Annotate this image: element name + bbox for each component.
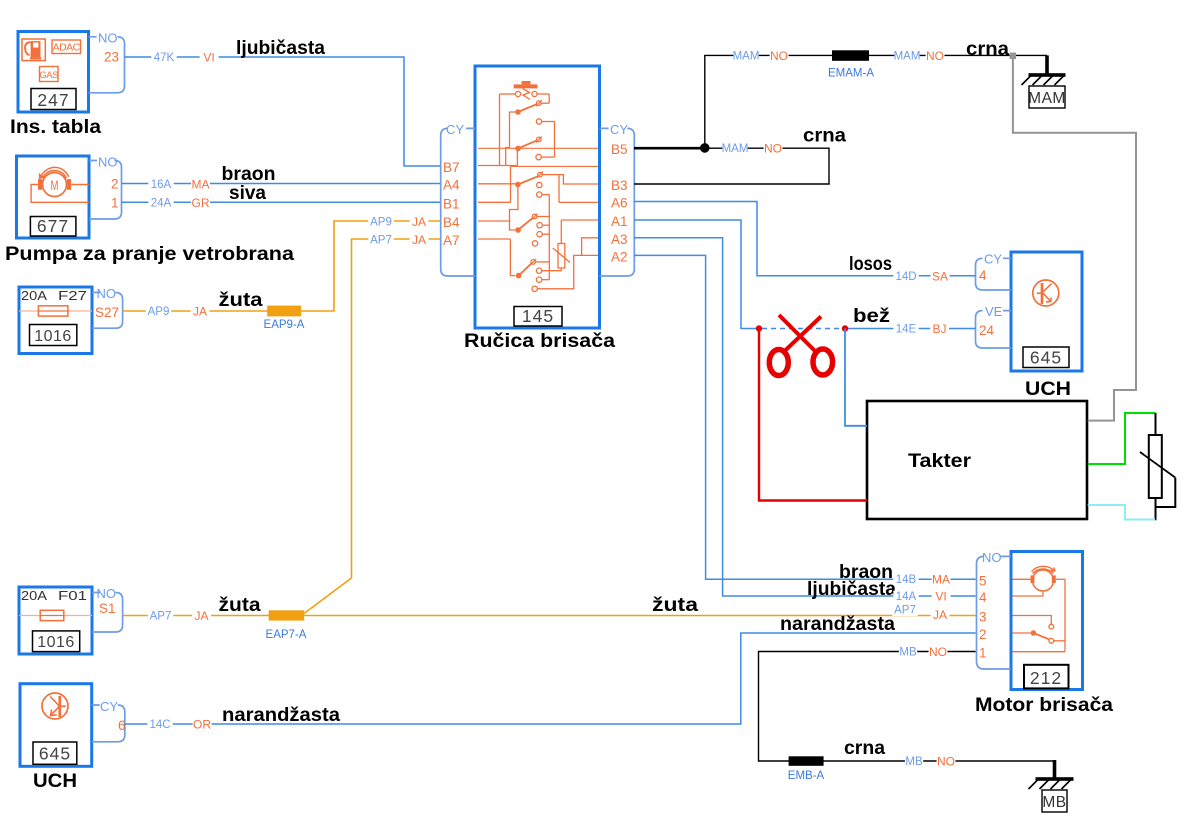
1016 code box F01 xyxy=(33,631,80,652)
node cut right xyxy=(842,325,848,331)
wire crna 212-1 to ground MB xyxy=(759,652,1055,762)
svg-text:EMB-A: EMB-A xyxy=(788,770,825,782)
svg-text:NO: NO xyxy=(926,49,944,63)
component 645 UCH box (bottom left) xyxy=(20,684,92,767)
wire label JA at 212-3 xyxy=(931,609,950,621)
svg-text:CY: CY xyxy=(100,699,118,714)
wire label MB 2 xyxy=(905,756,923,768)
svg-text:JA: JA xyxy=(194,609,208,623)
fuse F27 symbol xyxy=(19,310,92,312)
svg-text:VI: VI xyxy=(935,590,946,604)
svg-text:B5: B5 xyxy=(611,142,628,157)
switch icon 212 xyxy=(1013,616,1052,625)
212 code box xyxy=(1024,665,1069,689)
connector bracket 247 xyxy=(89,37,125,93)
svg-text:bež: bež xyxy=(853,305,890,327)
connector bracket 677 xyxy=(89,161,122,220)
splice EMAM-A xyxy=(832,50,869,61)
wire label JA (top) xyxy=(191,306,210,318)
svg-text:A7: A7 xyxy=(443,233,460,248)
wire siva 677-1 to 145-B1 xyxy=(122,201,441,203)
resistor R inside 145 xyxy=(560,220,562,244)
wire B5 row through 145 xyxy=(478,147,598,149)
svg-text:ljubičasta: ljubičasta xyxy=(236,37,325,59)
svg-text:B1: B1 xyxy=(443,196,460,211)
svg-text:MAM: MAM xyxy=(733,51,760,63)
svg-text:S27: S27 xyxy=(95,305,119,320)
wire label MAM 3 xyxy=(722,143,747,155)
svg-text:MA: MA xyxy=(932,573,950,587)
wire junction to EMAM-A to ground xyxy=(705,55,1047,147)
wire bež 145-A1 solid left xyxy=(634,220,759,329)
svg-text:A4: A4 xyxy=(443,178,460,193)
svg-text:CY: CY xyxy=(446,122,464,137)
wire label MB 1 xyxy=(899,646,917,658)
wire label 24A xyxy=(148,197,173,209)
ADAC label box xyxy=(52,40,81,54)
wire green Takter to thermistor xyxy=(1088,413,1156,464)
svg-text:crna: crna xyxy=(966,38,1009,60)
svg-text:JA: JA xyxy=(412,233,426,247)
svg-text:4: 4 xyxy=(979,590,987,605)
wire junction to B3 loop xyxy=(634,148,829,184)
645 code box (top right) xyxy=(1023,347,1069,368)
svg-text:ADAC: ADAC xyxy=(53,42,81,54)
wire circle S1c to bus xyxy=(542,194,549,196)
GAS label box xyxy=(40,67,59,82)
wire žuta F01-S1 to 212-3 xyxy=(123,615,976,617)
svg-text:A6: A6 xyxy=(611,196,628,211)
wire label SA xyxy=(931,271,950,283)
svg-text:žuta: žuta xyxy=(219,289,263,311)
svg-text:MB: MB xyxy=(1042,794,1066,811)
thermal element inside 145 xyxy=(514,84,538,88)
svg-text:AP7: AP7 xyxy=(150,611,172,623)
wire circle S1a lower xyxy=(542,121,555,123)
svg-text:NO: NO xyxy=(98,155,118,170)
svg-text:EAP7-A: EAP7-A xyxy=(266,629,307,641)
switch S1e xyxy=(516,273,522,279)
svg-text:B3: B3 xyxy=(611,178,628,193)
wire pivot S1c lead to S1d xyxy=(510,187,518,230)
wire label VI 2 xyxy=(932,591,951,603)
wire narandžasta UCH-6 to 212-2 xyxy=(125,633,976,724)
wire label 14D xyxy=(893,271,918,283)
connector bracket UCH pin 4 xyxy=(976,258,1012,290)
svg-text:JA: JA xyxy=(193,305,207,319)
wire grey MAM to Takter xyxy=(1013,57,1136,421)
wire A7 entry to pivot S1e xyxy=(478,239,515,276)
svg-text:siva: siva xyxy=(229,182,266,204)
fuel pump icon xyxy=(22,39,45,61)
svg-text:MB: MB xyxy=(899,647,917,659)
wire bež solid right to UCH-24 xyxy=(845,328,976,330)
wire contact S1a xyxy=(541,102,549,104)
node grey junction xyxy=(1010,53,1016,59)
UCH transistor icon (top right) xyxy=(1033,280,1059,306)
svg-text:VI: VI xyxy=(203,51,214,65)
svg-text:JA: JA xyxy=(933,608,947,622)
svg-text:14A: 14A xyxy=(896,591,917,603)
wire A4 entry xyxy=(478,183,515,185)
svg-text:M: M xyxy=(51,178,59,193)
svg-text:narandžasta: narandžasta xyxy=(222,704,340,726)
wire B4 entry xyxy=(478,220,510,222)
645 code box (bottom left) xyxy=(33,742,77,764)
wire circles S1d xyxy=(542,224,549,226)
svg-text:A1: A1 xyxy=(611,214,628,229)
svg-text:AP7: AP7 xyxy=(370,235,392,247)
thermistor R1 xyxy=(1155,413,1157,435)
svg-text:ljubičasta: ljubičasta xyxy=(807,578,896,600)
svg-text:Motor brisača: Motor brisača xyxy=(975,694,1113,716)
svg-text:SA: SA xyxy=(932,270,948,284)
svg-text:JA: JA xyxy=(412,215,426,229)
145 code box xyxy=(514,307,562,327)
ground MB xyxy=(1053,760,1057,779)
247 code box xyxy=(31,89,76,110)
wire mid row xyxy=(511,165,599,167)
wire label BJ xyxy=(930,323,949,335)
svg-text:MA: MA xyxy=(192,178,210,192)
wire right bus vertical xyxy=(548,195,550,280)
switch S1a xyxy=(515,109,521,115)
svg-text:NO: NO xyxy=(770,49,788,63)
svg-text:EAP9-A: EAP9-A xyxy=(264,319,305,331)
node junction MAM xyxy=(700,143,710,153)
wire label NO 4 xyxy=(929,646,948,658)
svg-text:NO: NO xyxy=(982,550,1002,565)
1016 code box F27 xyxy=(30,325,77,346)
svg-text:B7: B7 xyxy=(443,160,460,175)
wire label 14B xyxy=(893,574,918,586)
motor M icon xyxy=(43,173,67,197)
wire label NO 1 xyxy=(770,50,789,62)
wire label 14C xyxy=(147,719,172,731)
svg-text:AP9: AP9 xyxy=(148,306,170,318)
svg-text:16A: 16A xyxy=(151,179,172,191)
wire label AP7 (bottom) xyxy=(148,610,173,622)
component 247 Ins. tabla box xyxy=(18,32,89,113)
component 1016 fuse box F01 xyxy=(19,587,92,654)
svg-text:F01: F01 xyxy=(58,588,87,603)
svg-text:14D: 14D xyxy=(895,271,916,283)
connector bracket F27 xyxy=(92,293,123,329)
svg-text:žuta: žuta xyxy=(219,594,261,616)
motor icon 212 xyxy=(1033,570,1054,591)
wire ljubičasta 247-23 to 145-B7 xyxy=(125,57,441,166)
svg-text:Ins. tabla: Ins. tabla xyxy=(10,116,101,138)
wire label JA at 145-B4 xyxy=(410,216,429,228)
component 645 UCH box (top right) xyxy=(1011,252,1082,371)
svg-text:losos: losos xyxy=(849,253,892,275)
svg-text:Takter: Takter xyxy=(908,450,971,472)
wire B5 to junction xyxy=(634,147,705,150)
svg-text:23: 23 xyxy=(104,50,119,65)
connector bracket UCH bottom xyxy=(92,705,125,742)
wire to A6 xyxy=(559,175,598,203)
connector bracket F01 xyxy=(92,593,123,633)
svg-text:MAM: MAM xyxy=(894,51,921,63)
wire label JA (bottom) xyxy=(192,610,211,622)
wire B7 riser xyxy=(499,94,501,166)
svg-text:NO: NO xyxy=(937,755,955,769)
splice EAP9-A xyxy=(267,306,301,317)
svg-text:1016: 1016 xyxy=(37,634,75,651)
wire label NO 2 xyxy=(926,50,945,62)
svg-text:OR: OR xyxy=(193,718,211,732)
svg-text:1: 1 xyxy=(979,646,987,661)
svg-text:1016: 1016 xyxy=(34,328,72,345)
wire žuta F27-S27 to 145-B4 xyxy=(123,221,440,311)
component 212 Motor brisača box xyxy=(1011,552,1083,690)
wire contact S1d xyxy=(537,216,549,218)
wire label AP7 at 145-A7 xyxy=(368,234,393,246)
switch S1b xyxy=(515,146,521,152)
svg-text:Ručica brisača: Ručica brisača xyxy=(464,330,615,352)
component 145 Ručica brisača box xyxy=(475,66,600,328)
component 1016 fuse box F27 xyxy=(19,287,92,354)
svg-text:MAM: MAM xyxy=(722,143,749,155)
node cut left xyxy=(756,325,762,331)
wire label VI xyxy=(200,52,219,64)
svg-text:145: 145 xyxy=(522,306,554,326)
svg-text:1: 1 xyxy=(111,196,119,211)
svg-text:UCH: UCH xyxy=(33,770,77,792)
svg-text:NO: NO xyxy=(764,142,782,156)
svg-text:MAM: MAM xyxy=(1028,90,1066,107)
wire blue cut to Takter xyxy=(845,329,867,426)
svg-text:NO: NO xyxy=(98,31,118,46)
svg-text:BJ: BJ xyxy=(932,322,946,336)
svg-text:AP9: AP9 xyxy=(370,217,392,229)
wire label 47K xyxy=(151,52,176,64)
wire pivot S1a lead xyxy=(506,112,516,166)
svg-text:14E: 14E xyxy=(896,324,917,336)
svg-text:677: 677 xyxy=(37,216,69,236)
wire label JA at 145-A7 xyxy=(410,234,429,246)
svg-text:F27: F27 xyxy=(58,288,87,303)
svg-text:UCH: UCH xyxy=(1025,378,1071,400)
wire label NO 5 xyxy=(937,756,956,768)
connector bracket UCH pin 24 xyxy=(976,311,1012,348)
svg-text:645: 645 xyxy=(39,744,71,764)
splice EAP7-A xyxy=(269,610,305,620)
wire contact S1c to B3 xyxy=(542,175,598,184)
wire label MAM 1 xyxy=(733,50,758,62)
wire label 16A xyxy=(148,179,173,191)
svg-text:24A: 24A xyxy=(151,198,172,210)
svg-text:MB: MB xyxy=(905,756,923,768)
wire label OR xyxy=(193,719,212,731)
wire label AP9 at 145-B4 xyxy=(368,216,393,228)
svg-text:CY: CY xyxy=(984,252,1002,267)
splice EMB-A xyxy=(789,756,824,766)
wire cyan Takter to thermistor xyxy=(1088,505,1156,520)
wire A3 branch xyxy=(582,238,598,256)
svg-text:narandžasta: narandžasta xyxy=(780,613,895,635)
svg-text:žuta: žuta xyxy=(652,594,698,616)
connector bracket 212 xyxy=(977,556,1012,669)
svg-text:AP7: AP7 xyxy=(894,605,916,617)
svg-text:14B: 14B xyxy=(896,574,917,586)
svg-text:645: 645 xyxy=(1030,348,1062,368)
connector bracket 145 right xyxy=(600,128,635,276)
wire ljubičasta 145-A3 to 212-4 xyxy=(634,238,976,596)
UCH transistor icon (bottom left) xyxy=(42,693,68,719)
svg-text:CY: CY xyxy=(610,122,628,137)
wire label 14E xyxy=(893,323,918,335)
svg-text:3: 3 xyxy=(979,610,987,625)
wire label NO 3 xyxy=(764,143,783,155)
svg-text:crna: crna xyxy=(803,125,846,147)
fuse F01 symbol xyxy=(19,615,92,617)
svg-text:VE: VE xyxy=(985,304,1003,319)
wire red cut to Takter xyxy=(759,329,867,501)
svg-text:247: 247 xyxy=(37,90,69,110)
677 code box xyxy=(30,217,76,237)
wire label 14A xyxy=(893,591,918,603)
svg-text:5: 5 xyxy=(979,573,987,588)
svg-text:GAS: GAS xyxy=(39,70,58,81)
svg-text:B4: B4 xyxy=(443,215,460,230)
svg-text:A3: A3 xyxy=(611,232,628,247)
wire branch EAP7-A to 145-A7 xyxy=(304,239,440,614)
svg-text:A2: A2 xyxy=(611,249,628,264)
svg-text:6: 6 xyxy=(118,718,126,733)
switch S1c xyxy=(515,182,521,188)
wire braon 677-2 to 145-A4 xyxy=(122,183,441,185)
wire label GR xyxy=(191,197,210,209)
connector bracket 145 left xyxy=(441,128,475,276)
svg-text:GR: GR xyxy=(192,196,210,210)
ground MAM xyxy=(1045,55,1049,75)
svg-text:Pumpa za pranje vetrobrana: Pumpa za pranje vetrobrana xyxy=(5,243,294,265)
wire contact S1e xyxy=(536,261,550,263)
svg-text:20A: 20A xyxy=(21,588,47,603)
wire label AP9 xyxy=(146,306,171,318)
wire thermal to risers xyxy=(500,93,516,95)
wire label MAM 2 xyxy=(894,50,919,62)
svg-text:212: 212 xyxy=(1030,668,1062,688)
wire braon 145-A2 to 212-5 xyxy=(634,255,976,579)
svg-text:crna: crna xyxy=(844,737,885,759)
svg-text:2: 2 xyxy=(979,627,987,642)
wire losos 145-A6 to UCH-4 xyxy=(634,202,976,276)
wire circle S1e rows xyxy=(542,270,562,272)
svg-text:NO: NO xyxy=(97,586,117,601)
svg-text:S1: S1 xyxy=(99,601,116,616)
wire bež dashed cut segment xyxy=(762,328,842,330)
scissors icon xyxy=(779,315,818,354)
component 677 pump box xyxy=(17,156,90,238)
component Takter box xyxy=(867,401,1087,519)
svg-text:20A: 20A xyxy=(21,288,47,303)
svg-text:4: 4 xyxy=(979,268,987,283)
wire label MA xyxy=(191,179,210,191)
svg-text:24: 24 xyxy=(979,323,995,338)
svg-text:EMAM-A: EMAM-A xyxy=(828,68,874,80)
wire E3 to A2 xyxy=(537,255,598,288)
switch S1d xyxy=(515,227,521,233)
wire label MA 2 xyxy=(932,574,951,586)
wire label AP7 at 212-3 xyxy=(892,604,917,616)
svg-text:14C: 14C xyxy=(149,719,170,731)
svg-text:NO: NO xyxy=(929,645,947,659)
svg-text:47K: 47K xyxy=(154,52,175,64)
svg-text:NO: NO xyxy=(97,286,117,301)
svg-text:2: 2 xyxy=(111,177,119,192)
